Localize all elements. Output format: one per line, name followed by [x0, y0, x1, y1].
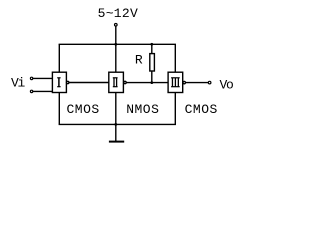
svg-text:Vo: Vo [220, 77, 234, 92]
svg-text:CMOS: CMOS [67, 102, 100, 117]
svg-text:5~12V: 5~12V [98, 6, 139, 21]
svg-text:Vi: Vi [11, 76, 26, 91]
svg-text:NMOS: NMOS [126, 102, 159, 117]
svg-text:R: R [135, 52, 143, 67]
svg-text:CMOS: CMOS [185, 102, 218, 117]
